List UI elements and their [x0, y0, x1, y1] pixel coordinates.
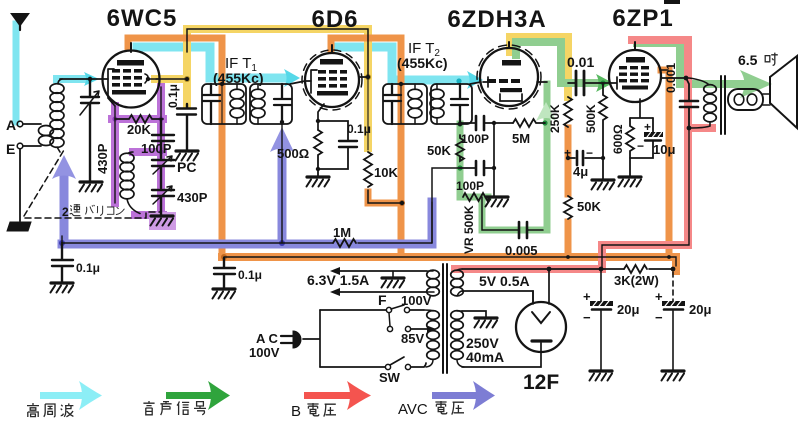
- coil PT primary: [427, 311, 440, 320]
- wire 5V top: [462, 268, 549, 270]
- capacitor 4u: [568, 151, 603, 165]
- svg-text:430P: 430P: [177, 190, 208, 205]
- wire blue AVC arrow 2 head: [270, 127, 294, 152]
- resistor 50K detector: [456, 135, 464, 161]
- coil IFT2 primary: [408, 89, 422, 99]
- speaker cone: [770, 56, 797, 128]
- wire orange IFT1 drop to B+ rail: [219, 84, 226, 257]
- coil PT 6.3V winding: [427, 270, 440, 279]
- tube 6D6 internals: [317, 59, 348, 96]
- wire 5V bottom: [462, 291, 533, 303]
- wire cyan over IFT1: [210, 74, 286, 83]
- svg-text:20μ: 20μ: [689, 302, 711, 317]
- capacitor 0.005: [519, 222, 527, 238]
- wire green 6ZP1 staircase: [637, 43, 680, 84]
- wire 10K to orange node: [368, 190, 401, 203]
- svg-text:0.1μ: 0.1μ: [238, 268, 262, 282]
- svg-text:B: B: [291, 403, 301, 420]
- wire IFT2 to 6ZDH3A grid: [470, 82, 481, 84]
- wire 100P column to ground: [493, 123, 495, 196]
- legend B arrow: [304, 392, 350, 399]
- resistor VR 500K: [463, 193, 490, 201]
- terminal A: [17, 121, 23, 127]
- wire green diode column: [544, 84, 551, 230]
- svg-text:50K: 50K: [577, 199, 601, 214]
- wire green VR row: [460, 194, 488, 201]
- transformer PT core: [443, 264, 447, 373]
- wire green 0.005 row: [482, 197, 547, 230]
- svg-text:+: +: [583, 289, 591, 304]
- node orange dot 10K junction: [399, 200, 405, 206]
- wire 0.005 to diode column: [528, 229, 543, 231]
- wire orange B+ rail: [222, 257, 676, 271]
- wire 12F B plus line: [549, 268, 673, 270]
- capacitor 100P 1: [476, 116, 484, 130]
- wire green 6ZDH3A staircase to 0.01: [516, 42, 596, 83]
- tube 6D6 envelope: [305, 53, 359, 107]
- terminal E: [17, 143, 23, 149]
- transformer OPT core: [721, 76, 725, 134]
- wire 6D6 plate: [359, 76, 368, 78]
- svg-text:−: −: [655, 310, 663, 325]
- svg-text:(455Kc): (455Kc): [213, 70, 264, 86]
- legend AF arrow: [166, 392, 211, 399]
- svg-text:A: A: [6, 117, 16, 133]
- svg-text:−: −: [586, 146, 593, 160]
- capacitor 0.001: [680, 78, 698, 128]
- wire orange 250K feed upper: [565, 128, 572, 194]
- svg-text:1M: 1M: [333, 225, 351, 240]
- wire green arrow into 6ZP1: [596, 74, 613, 92]
- capacitor 0.1u cathode: [318, 121, 357, 169]
- svg-text:40mA: 40mA: [466, 349, 504, 365]
- wire cyan staircase 6D6 to IFT2: [336, 47, 392, 80]
- node blue dot 0.1u 1: [59, 240, 65, 246]
- svg-text:PC: PC: [177, 159, 196, 175]
- resistor 250K: [564, 97, 572, 127]
- tube 6WC5 top cap: [130, 43, 132, 52]
- tube 6ZP1 top cap: [634, 42, 636, 50]
- capacitor 100P osc: [152, 119, 174, 158]
- wire purple osc bottom: [135, 211, 163, 219]
- svg-text:6ZDH3A: 6ZDH3A: [447, 6, 546, 33]
- ground 20u 2: [662, 371, 685, 381]
- capacitor 20u 2: [672, 272, 674, 301]
- wire IFT1 to 6D6 grid: [290, 81, 305, 84]
- wire green pale arrow on diode column: [536, 102, 556, 121]
- wire blue AVC arrow 1 head: [52, 155, 76, 179]
- wire orange staircase 6D6 top: [331, 38, 401, 84]
- svg-text:SW: SW: [379, 370, 401, 385]
- wire orange 10K bottom jog: [368, 192, 401, 203]
- capacitor IFT2 secondary: [451, 84, 468, 124]
- capacitor 0.1u AVC 2: [214, 258, 235, 288]
- tube 6ZP1 internals: [619, 57, 649, 90]
- resistor 500K grid leak: [599, 83, 607, 179]
- transformer IFT2 body: [383, 84, 427, 124]
- svg-text:12F: 12F: [523, 371, 559, 394]
- node yellow rail plate junction: [185, 77, 189, 81]
- svg-text:VR 500K: VR 500K: [462, 205, 476, 254]
- wire 12F filament leads: [533, 269, 549, 304]
- svg-text:85V: 85V: [401, 331, 424, 346]
- wire orange 6ZP1 screen feed: [661, 70, 669, 257]
- wire 6D6 cathode: [318, 104, 324, 130]
- resistor 500 ohm: [314, 130, 322, 176]
- ground E: [7, 222, 31, 231]
- wire purple ground patch: [149, 212, 176, 230]
- wire green big arrow to speaker: [740, 70, 772, 98]
- wire 6.3V heater lines: [339, 271, 427, 292]
- wire orange cores: [222, 84, 401, 124]
- wire cyan coil to 6WC5 grid: [57, 75, 84, 83]
- wire green detector column: [457, 124, 464, 197]
- tube 6ZP1 envelope: [609, 50, 661, 102]
- node yellow dot 6WC5: [184, 76, 190, 82]
- capacitor 0.1u AVC 1: [52, 243, 73, 282]
- ground 500K: [592, 180, 615, 190]
- wire E to ground: [19, 149, 21, 221]
- node IFT1 secondary bottom: [280, 120, 284, 124]
- tube 12F envelope: [516, 302, 566, 352]
- wire 0.01 row: [568, 82, 609, 84]
- svg-text:+: +: [644, 120, 651, 134]
- svg-text:5M: 5M: [512, 131, 530, 146]
- tube 6WC5 internals: [112, 60, 146, 95]
- node IFT2 orange feed: [399, 82, 403, 86]
- svg-text:AVC: AVC: [398, 401, 428, 418]
- wire cyan arrow into 6D6: [284, 69, 300, 87]
- wire red transformer bottom stub: [688, 124, 712, 132]
- wire cyan arrow into 6WC5: [84, 72, 99, 86]
- tube 12F plate: [532, 339, 551, 342]
- node cyan junction dot: [87, 76, 92, 81]
- antenna coil secondary: [50, 84, 64, 94]
- node orange dot 0.1u junction: [221, 254, 227, 260]
- resistor 600 ohm: [626, 118, 634, 176]
- svg-text:6.5: 6.5: [738, 52, 758, 68]
- wire cyan staircase 6WC5 to IFT1: [137, 47, 210, 78]
- wire purple osc left vertical: [111, 106, 119, 203]
- svg-text:100V: 100V: [249, 345, 280, 360]
- svg-text:E: E: [6, 141, 15, 157]
- wire VR to 0.005: [482, 197, 518, 230]
- svg-text:600Ω: 600Ω: [611, 124, 625, 154]
- wire yellow rail core: [187, 29, 368, 77]
- transformer OPT secondary voice coil: [728, 89, 763, 110]
- tube 6ZDH3A internals: [487, 60, 522, 92]
- wire 100P row 1: [460, 122, 513, 124]
- wire dashed gang diagonal: [24, 150, 64, 216]
- tube 6WC5 envelope: [103, 51, 160, 108]
- tube 6D6 top cap: [331, 45, 333, 53]
- svg-text:−: −: [583, 310, 591, 325]
- svg-text:0.01: 0.01: [567, 54, 594, 70]
- wire blue AVC arrow 1 shaft: [60, 172, 69, 243]
- svg-text:6D6: 6D6: [311, 6, 358, 33]
- resistor 1M: [333, 239, 356, 247]
- legend AF text: [143, 401, 154, 415]
- capacitor 430P osc: [152, 190, 174, 215]
- wire orange staircase 6WC5 top: [128, 38, 222, 84]
- capacitor IFT1 primary: [203, 84, 220, 124]
- wire cyan over IFT2: [392, 76, 469, 85]
- legend RF text: [27, 403, 39, 417]
- ground 600ohm: [619, 177, 642, 187]
- wire B+ rail core: [224, 257, 676, 266]
- node yellow dot 6D6 plate: [365, 74, 371, 80]
- wire red core: [602, 128, 689, 269]
- capacitor IFT2 primary: [384, 84, 401, 124]
- svg-text:100P: 100P: [141, 141, 172, 156]
- wire purple coil top row: [133, 148, 163, 156]
- legend RF arrow: [40, 392, 82, 399]
- svg-text:6ZP1: 6ZP1: [612, 5, 673, 32]
- svg-text:0.005: 0.005: [505, 243, 538, 258]
- node blue dot arrow2: [279, 240, 285, 246]
- svg-text:100V: 100V: [401, 293, 432, 308]
- svg-text:20μ: 20μ: [617, 302, 639, 317]
- svg-text:250K: 250K: [548, 104, 562, 133]
- node purple dots: [112, 116, 117, 121]
- capacitor 100P 2: [476, 161, 484, 175]
- capacitor 20u 1: [600, 269, 602, 370]
- svg-text:−: −: [637, 139, 644, 153]
- node yellow dot 0.01 junction: [565, 80, 571, 86]
- resistor 20K: [115, 115, 163, 123]
- svg-text:+: +: [655, 289, 663, 304]
- transformer IFT1 body: [202, 84, 246, 124]
- resistor 5M: [513, 119, 545, 127]
- ground 6D6 cathode: [307, 177, 330, 187]
- wire 6ZP1 cathode: [630, 99, 653, 118]
- wire orange IFT2 drop to B+ rail: [398, 84, 405, 257]
- coil IFT1 secondary: [251, 89, 265, 99]
- wire yellow 6ZDH3A staircase: [510, 37, 568, 97]
- node green dots: [457, 121, 462, 126]
- wire 100P row 2: [460, 167, 494, 169]
- antenna: [12, 14, 28, 25]
- capacitor 0.01: [576, 71, 584, 95]
- ground heater: [392, 271, 394, 277]
- svg-text:20K: 20K: [127, 122, 151, 137]
- resistor 3K 2W: [624, 265, 647, 273]
- coil IFT2 secondary: [430, 89, 444, 99]
- svg-text:0.1μ: 0.1μ: [166, 84, 180, 108]
- svg-text:50K: 50K: [427, 143, 451, 158]
- node IFT1 orange feed: [220, 82, 224, 86]
- tube 12F filament: [532, 312, 550, 323]
- coil PT 5V winding: [451, 270, 464, 279]
- wire yellow junction up to rail: [187, 29, 368, 148]
- coil IFT1 primary: [230, 89, 244, 99]
- wire blue AVC arrow 2 shaft: [278, 145, 287, 243]
- wire 6ZDH3A diode out: [537, 81, 547, 83]
- wire AVC tap: [432, 168, 460, 243]
- svg-text:+: +: [564, 146, 571, 160]
- svg-text:100P: 100P: [456, 179, 484, 193]
- svg-text:100P: 100P: [461, 132, 489, 146]
- svg-text:6WC5: 6WC5: [107, 5, 178, 32]
- node IFT2 secondary bottom: [458, 122, 462, 126]
- ground under 430P1: [80, 182, 103, 192]
- capacitor IFT1 secondary: [274, 84, 291, 124]
- wire blue AVC bus: [62, 240, 432, 249]
- wire purple cores: [115, 87, 161, 203]
- resistor 10K: [364, 152, 372, 187]
- wire voice coil to cone: [763, 94, 770, 105]
- wire coil top to tube grid: [60, 78, 103, 80]
- svg-text:10μ: 10μ: [653, 142, 675, 157]
- wire HV top to ground: [462, 311, 486, 317]
- wire 85V tap with arrow: [411, 328, 428, 330]
- legend AVC arrow: [432, 392, 476, 399]
- wire plug to primary: [303, 310, 320, 367]
- wire yellow 6WC5 plate to junction: [155, 75, 187, 83]
- tube 6ZDH3A top cap: [508, 42, 510, 48]
- capacitor PC padder: [152, 160, 174, 188]
- wire cyan arrow into 6ZDH3A: [467, 71, 483, 89]
- svg-text:4μ: 4μ: [573, 164, 588, 179]
- coil PT HV winding: [451, 311, 464, 320]
- svg-text:2: 2: [62, 205, 69, 219]
- wire orange 250K feed lower: [565, 222, 572, 257]
- wire blue bus core: [62, 202, 432, 243]
- capacitor 0.1u at 6WC5 screen: [177, 104, 196, 150]
- node 430P1 top: [88, 77, 92, 81]
- wire orange cores right: [0, 0, 1, 1]
- heater arrows: [330, 267, 340, 296]
- svg-text:3K(2W): 3K(2W): [614, 273, 659, 288]
- oscillator coil: [120, 153, 134, 163]
- svg-text:F: F: [378, 292, 387, 308]
- switch SW: [320, 366, 385, 368]
- top right corner blob: [664, 0, 680, 4]
- wire 6ZP1 screen stub: [661, 69, 668, 71]
- transformer OPT primary coil: [704, 85, 717, 94]
- wire green speaker run: [684, 80, 742, 88]
- capacitor 10u: [630, 118, 653, 158]
- ground detector: [486, 197, 509, 207]
- wire AVC arrow2 core: [281, 124, 283, 243]
- svg-text:10K: 10K: [374, 165, 398, 180]
- svg-text:0.1μ: 0.1μ: [347, 122, 371, 136]
- antenna primary coil: [23, 124, 41, 146]
- resistor 50K decoupling: [564, 196, 572, 219]
- svg-text:500Ω: 500Ω: [277, 146, 309, 161]
- wire HV bottom to 12F plate: [462, 352, 541, 367]
- wire dashed gang horizontal: [25, 212, 160, 218]
- ground osc: [151, 216, 174, 226]
- wire purple osc right vertical: [157, 87, 165, 216]
- ground under 0.1u 6WC5: [176, 151, 199, 161]
- wire cyan antenna lead: [13, 24, 20, 122]
- wire blue AVC bus corner up: [428, 202, 437, 244]
- AC plug: [281, 336, 293, 343]
- capacitor 430P tuning 1: [81, 79, 99, 181]
- svg-text:5V 0.5A: 5V 0.5A: [479, 273, 530, 289]
- wire 6ZP1 plate: [661, 77, 688, 79]
- wire red B+ to output transformer: [455, 40, 688, 269]
- svg-text:6.3V 1.5A: 6.3V 1.5A: [307, 272, 369, 288]
- svg-text:(455Kc): (455Kc): [397, 55, 448, 71]
- tube 6ZDH3A envelope: [480, 48, 538, 106]
- svg-text:0.1μ: 0.1μ: [76, 261, 100, 275]
- node cyan junction dot IFT2: [456, 78, 461, 83]
- wire purple 20K row: [112, 115, 163, 123]
- wire primary top: [320, 309, 386, 311]
- fuse F: [386, 307, 391, 312]
- wire 100V tap: [410, 309, 424, 311]
- ground 20u 1: [590, 371, 613, 381]
- svg-text:430P: 430P: [95, 143, 110, 174]
- svg-text:500K: 500K: [584, 104, 598, 133]
- svg-text:0.001: 0.001: [664, 63, 678, 93]
- svg-text:A C: A C: [256, 331, 279, 346]
